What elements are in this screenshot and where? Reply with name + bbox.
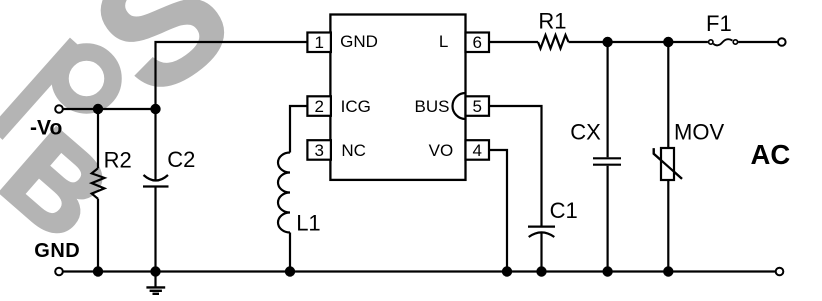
svg-text:AC: AC — [751, 139, 791, 170]
svg-text:MOV: MOV — [674, 119, 724, 144]
svg-text:1: 1 — [314, 33, 323, 52]
svg-text:6: 6 — [472, 33, 481, 52]
svg-text:R2: R2 — [104, 147, 132, 172]
svg-text:CX: CX — [570, 119, 601, 144]
svg-text:GND: GND — [34, 240, 80, 262]
svg-text:-Vo: -Vo — [30, 117, 62, 140]
svg-text:BUS: BUS — [415, 97, 450, 116]
svg-text:ICG: ICG — [341, 97, 371, 116]
svg-text:GND: GND — [340, 32, 378, 51]
svg-text:VO: VO — [429, 141, 454, 160]
svg-text:4: 4 — [472, 141, 481, 160]
svg-text:F1: F1 — [706, 11, 732, 36]
svg-text:L1: L1 — [296, 211, 320, 236]
svg-text:3: 3 — [314, 141, 323, 160]
svg-text:C1: C1 — [550, 198, 578, 223]
svg-text:NC: NC — [341, 141, 366, 160]
svg-text:L: L — [439, 32, 448, 51]
svg-text:R1: R1 — [538, 8, 566, 33]
svg-text:C2: C2 — [167, 147, 195, 172]
svg-text:2: 2 — [314, 97, 323, 116]
svg-text:5: 5 — [472, 97, 481, 116]
